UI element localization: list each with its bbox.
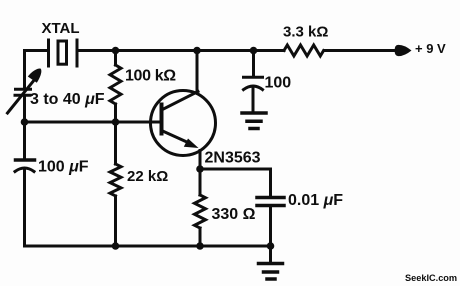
svg-text:100 kΩ: 100 kΩ (125, 68, 176, 85)
svg-text:+ 9 V: + 9 V (415, 41, 446, 56)
svg-text:22 kΩ: 22 kΩ (127, 168, 168, 185)
svg-text:330 Ω: 330 Ω (212, 206, 256, 223)
svg-text:XTAL: XTAL (42, 20, 80, 37)
svg-text:100: 100 (265, 75, 292, 92)
svg-text:100 μF: 100 μF (38, 159, 89, 176)
svg-text:3.3 kΩ: 3.3 kΩ (283, 23, 328, 40)
svg-text:2N3563: 2N3563 (205, 150, 261, 167)
svg-text:3 to 40 μF: 3 to 40 μF (30, 91, 105, 108)
svg-text:0.01 μF: 0.01 μF (288, 192, 343, 209)
svg-text:SeekIC.com: SeekIC.com (405, 273, 457, 283)
